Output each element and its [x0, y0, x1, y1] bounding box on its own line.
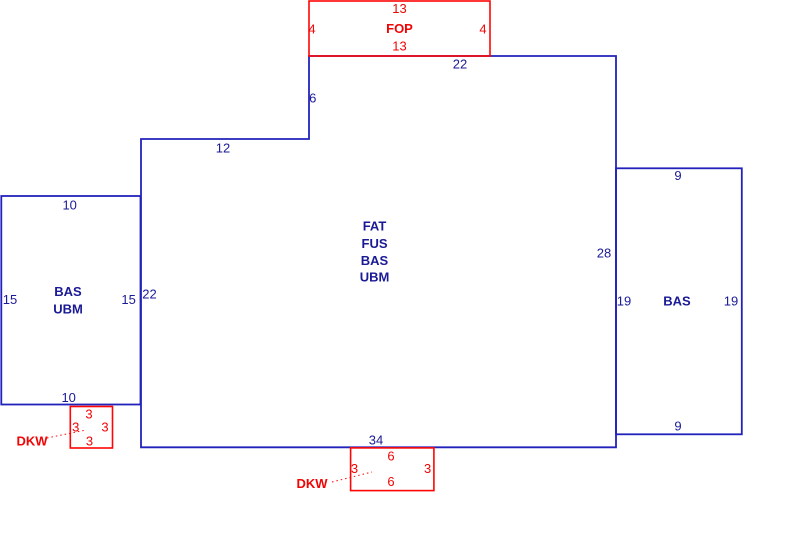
svg-text:BAS: BAS	[663, 294, 691, 309]
svg-text:3: 3	[424, 461, 431, 476]
left BAS/UBM rectangle	[1, 196, 140, 405]
svg-text:12: 12	[216, 140, 230, 155]
svg-text:6: 6	[387, 474, 394, 489]
svg-text:3: 3	[86, 434, 93, 449]
bottom DKW leader dotted line	[332, 472, 372, 482]
bottom DKW rectangle	[351, 448, 434, 491]
svg-text:4: 4	[308, 22, 315, 37]
main floor outline	[141, 56, 616, 447]
svg-text:28: 28	[597, 246, 611, 261]
svg-text:6: 6	[387, 449, 394, 464]
svg-text:3: 3	[72, 420, 79, 435]
svg-text:10: 10	[62, 198, 76, 213]
svg-text:BAS: BAS	[54, 284, 82, 299]
svg-text:19: 19	[724, 294, 738, 309]
svg-text:34: 34	[369, 433, 383, 448]
svg-text:FOP: FOP	[386, 21, 413, 36]
right BAS rectangle	[616, 168, 742, 434]
svg-text:22: 22	[142, 287, 156, 302]
left DKW leader dotted line	[47, 430, 86, 438]
svg-text:DKW: DKW	[296, 476, 328, 491]
svg-text:FAT: FAT	[363, 219, 387, 234]
svg-text:10: 10	[61, 390, 75, 405]
svg-text:UBM: UBM	[53, 302, 83, 317]
svg-text:UBM: UBM	[360, 270, 390, 285]
left DKW rectangle	[70, 407, 112, 449]
svg-text:9: 9	[674, 168, 681, 183]
svg-text:FUS: FUS	[362, 236, 388, 251]
svg-text:3: 3	[85, 407, 92, 422]
svg-text:22: 22	[453, 57, 467, 72]
svg-text:3: 3	[351, 461, 358, 476]
svg-text:6: 6	[309, 90, 316, 105]
svg-text:3: 3	[101, 420, 108, 435]
svg-text:13: 13	[392, 1, 406, 16]
svg-text:9: 9	[674, 418, 681, 433]
svg-text:DKW: DKW	[16, 434, 48, 449]
svg-text:15: 15	[3, 292, 17, 307]
FOP rectangle	[309, 1, 490, 56]
svg-text:15: 15	[121, 292, 135, 307]
svg-text:4: 4	[479, 22, 486, 37]
svg-text:19: 19	[617, 294, 631, 309]
svg-text:13: 13	[392, 39, 406, 54]
svg-text:BAS: BAS	[361, 253, 389, 268]
